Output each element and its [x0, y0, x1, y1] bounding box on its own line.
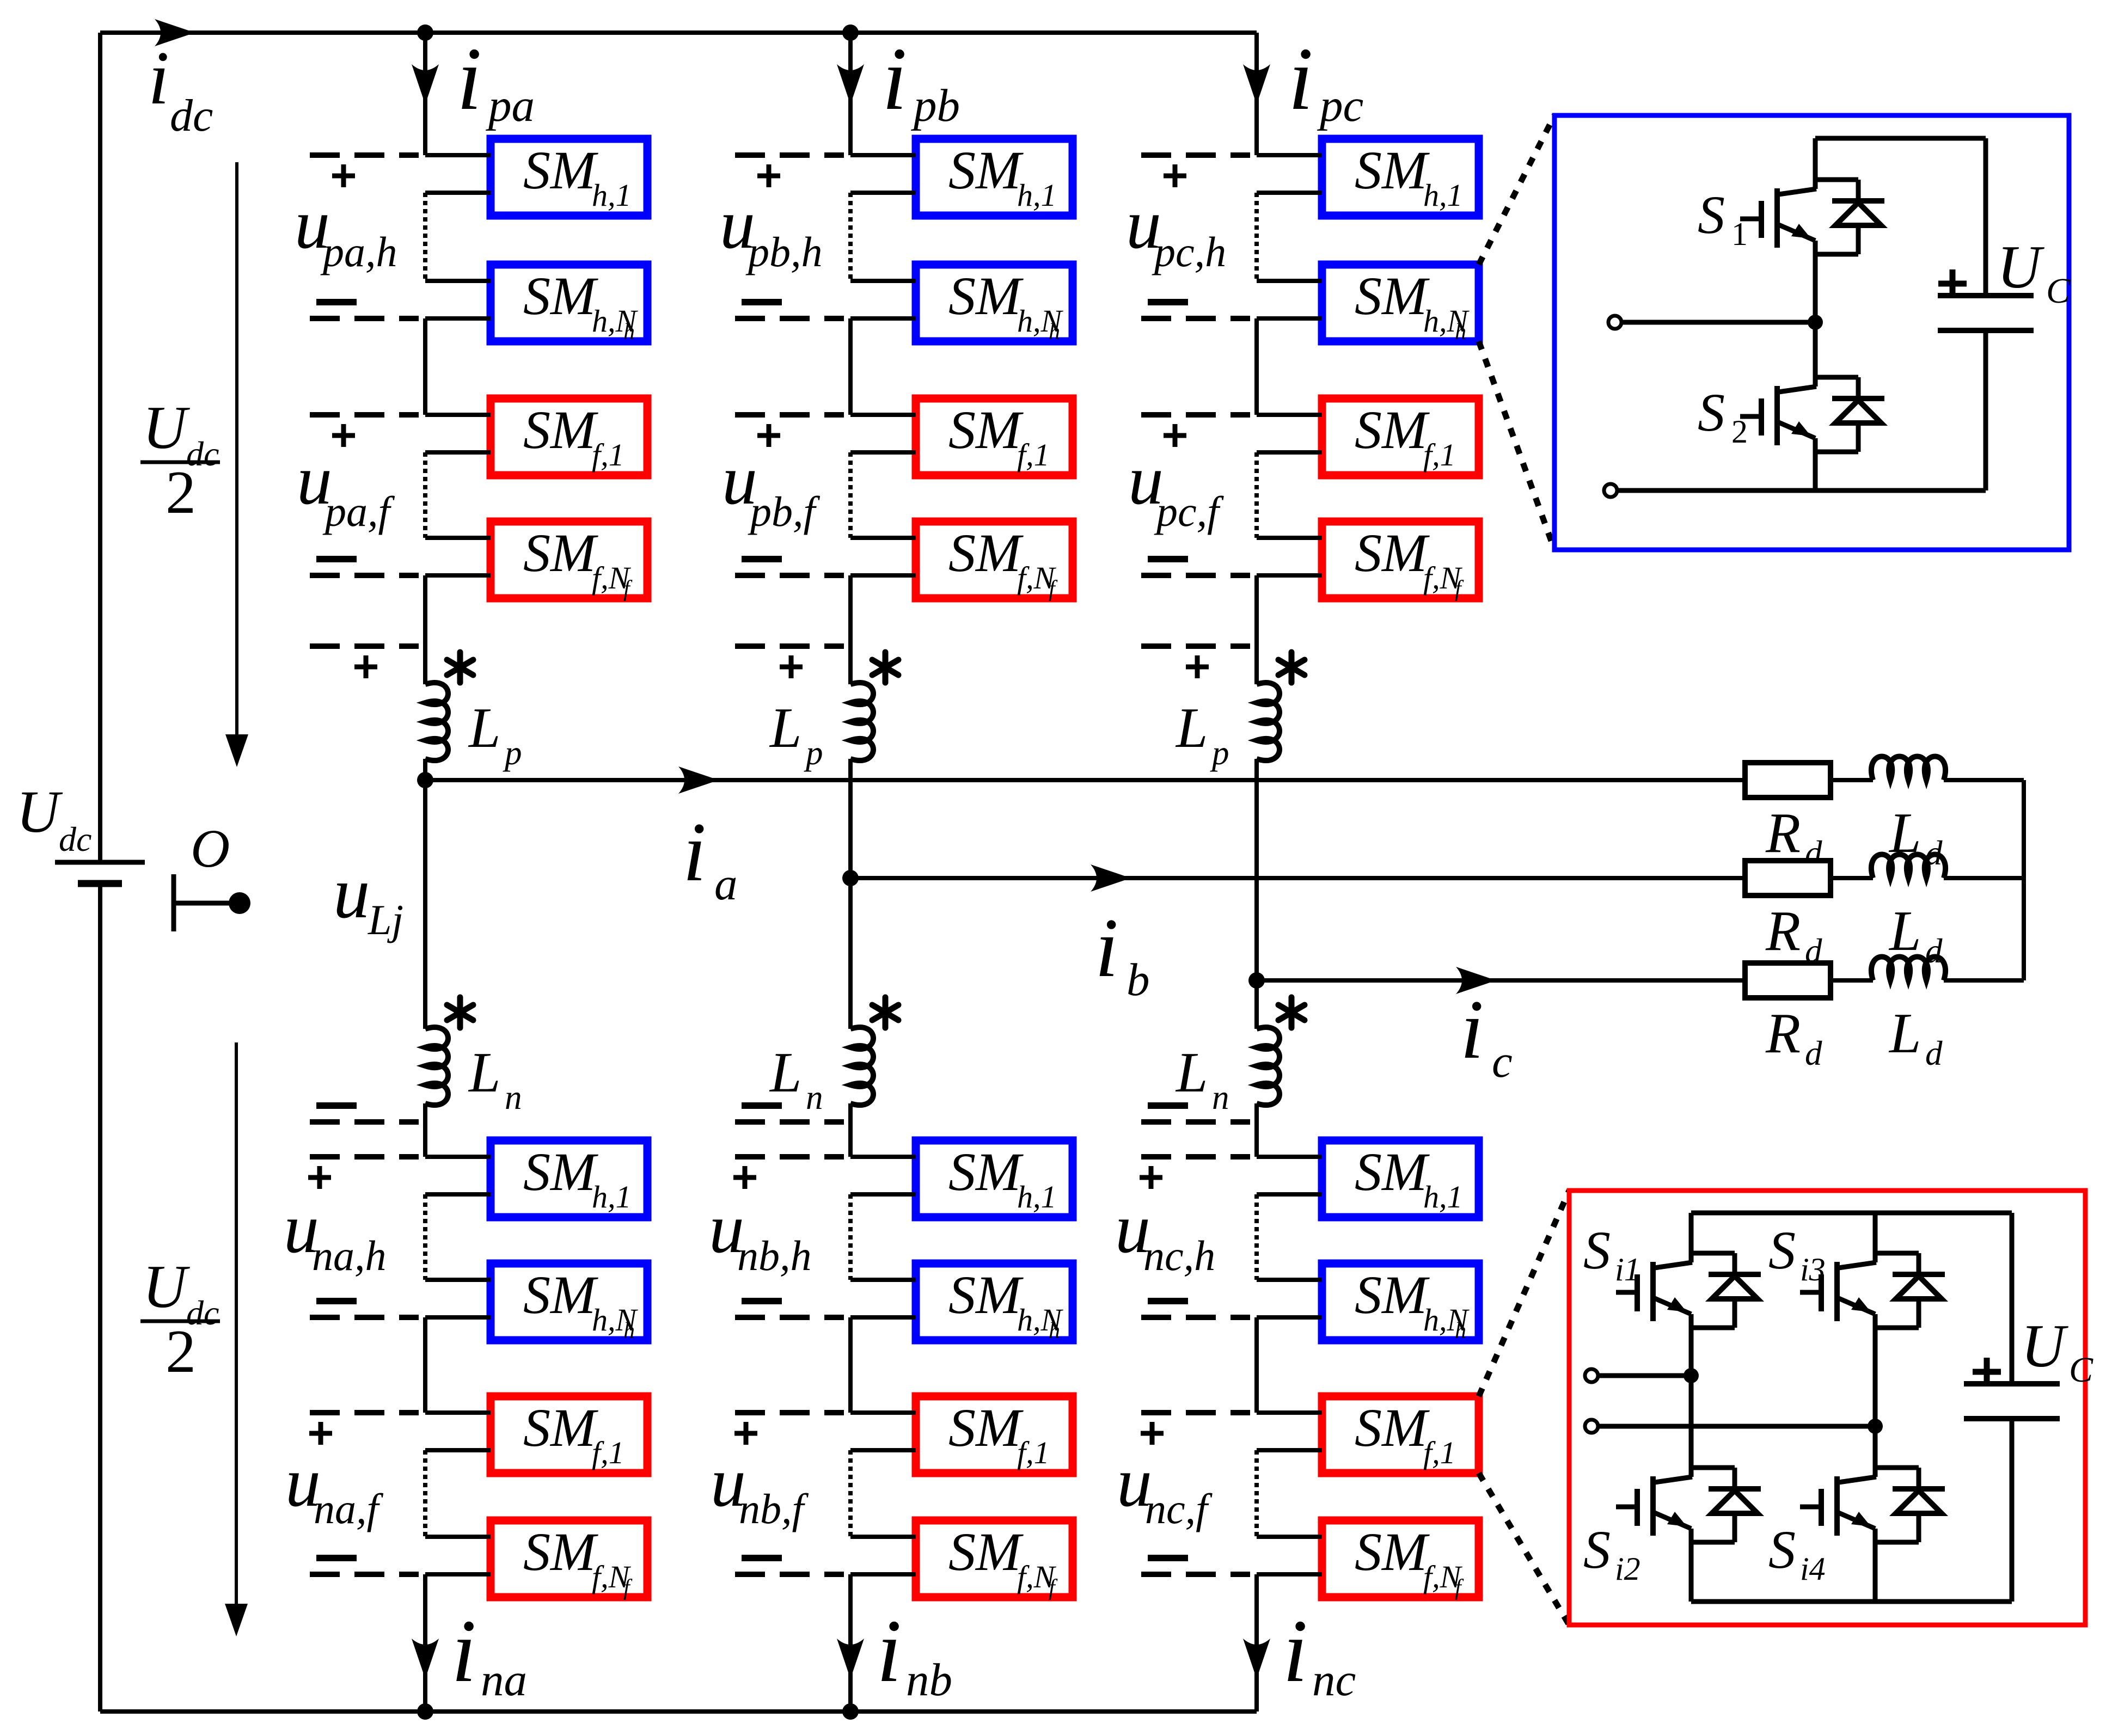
- arrow i_a: [678, 766, 719, 794]
- submodule SM box (top arm b row 2): [916, 265, 1073, 341]
- inductor L_n phase c: [1257, 1027, 1280, 1105]
- submodule SM box (bottom arm a row 1): [491, 1140, 647, 1217]
- submodule SM box (top arm c row 4): [1322, 522, 1479, 598]
- node top bus / phase a: [417, 24, 433, 41]
- svg-text:f,1: f,1: [592, 1435, 625, 1470]
- svg-text:u: u: [333, 852, 370, 934]
- wire pins row 2: [1257, 279, 1322, 283]
- wire chain dotted 3: [848, 1194, 853, 1280]
- svg-text:dc: dc: [170, 90, 213, 141]
- diode D_i2: [1691, 1465, 1735, 1470]
- source U_dc battery: [55, 860, 145, 865]
- svg-text:S: S: [1768, 1519, 1796, 1580]
- wire midpoint to lower inductor: [1254, 980, 1259, 1029]
- wire inductor to midpoint: [1254, 759, 1259, 980]
- wire inductor to lower arm: [848, 1103, 853, 1157]
- svg-text:p: p: [1210, 734, 1229, 772]
- svg-text:L: L: [769, 1040, 801, 1104]
- inductor L_p phase c: [1257, 683, 1280, 760]
- wire R_d to L_d (c): [1831, 978, 1873, 983]
- wire: top feed phase a: [423, 33, 427, 155]
- svg-text:SM: SM: [1355, 400, 1430, 460]
- inductor L_d (b): [1871, 855, 1945, 879]
- wire output line i_a: [425, 778, 1745, 782]
- wire pins bottom row 4: [850, 1535, 916, 1539]
- svg-text:nc,f: nc,f: [1145, 1485, 1213, 1532]
- wire pins bottom row 3: [425, 1410, 491, 1415]
- svg-text:L: L: [1888, 899, 1921, 962]
- svg-text:2: 2: [166, 459, 196, 526]
- wire S_i1 emitter to left midpoint: [1689, 1314, 1694, 1376]
- submodule SM box (top arm b row 1): [916, 139, 1073, 216]
- wire to upper arm inductor: [423, 575, 427, 684]
- leader dotted to full-bridge inset (top): [1479, 1191, 1569, 1396]
- svg-text:SM: SM: [948, 523, 1024, 583]
- wire midpoint to lower inductor: [848, 878, 853, 1029]
- wire collector S_i3: [1873, 1213, 1878, 1262]
- node top bus / phase b: [842, 24, 859, 41]
- svg-text:b: b: [1127, 954, 1150, 1005]
- svg-text:pb: pb: [911, 80, 960, 131]
- svg-text:SM: SM: [1355, 1142, 1430, 1202]
- wire left midpoint to S_i2: [1689, 1376, 1694, 1477]
- plus sign capacitor (half-bridge): [1938, 269, 1967, 298]
- node O midpoint tap: [172, 874, 176, 931]
- wire collector S1: [1813, 138, 1818, 189]
- wire R_d to L_d (b): [1831, 876, 1873, 880]
- svg-text:SM: SM: [948, 266, 1024, 326]
- svg-text:h,1: h,1: [1017, 1179, 1057, 1214]
- svg-text:S: S: [1698, 185, 1725, 245]
- wire collector S_i1: [1689, 1213, 1694, 1262]
- svg-text:SM: SM: [523, 523, 598, 583]
- svg-text:h: h: [1049, 320, 1060, 345]
- svg-text:h,1: h,1: [1423, 177, 1463, 213]
- svg-text:nb: nb: [906, 1654, 952, 1706]
- submodule SM box (bottom arm a row 2): [491, 1263, 647, 1340]
- resistor R_d (a): [1745, 763, 1831, 798]
- svg-text:i3: i3: [1800, 1252, 1826, 1287]
- wire pins bottom row 1: [425, 1155, 491, 1159]
- wire lower arm to bottom bus: [1254, 1574, 1259, 1712]
- svg-text:f,1: f,1: [1423, 1435, 1456, 1470]
- svg-text:i1: i1: [1615, 1252, 1640, 1287]
- wire right midpoint to S_i4: [1873, 1426, 1878, 1477]
- wire left vertical (dc link): [98, 33, 102, 862]
- wire inductor to midpoint: [423, 759, 427, 780]
- svg-text:SM: SM: [523, 1397, 598, 1458]
- svg-text:n: n: [1212, 1078, 1229, 1117]
- wire chain dotted 1: [1254, 193, 1259, 281]
- node left midpoint (full-bridge): [1684, 1368, 1699, 1383]
- wire L_d to star point (a): [1944, 778, 2024, 782]
- svg-text:d: d: [1925, 1034, 1943, 1072]
- inductor L_n phase a: [425, 1027, 448, 1105]
- arrow i_pc: [1243, 64, 1270, 105]
- svg-text:O: O: [191, 818, 230, 879]
- submodule SM box (bottom arm b row 4): [916, 1520, 1073, 1597]
- svg-text:h: h: [623, 1318, 635, 1344]
- main DC bus top: [100, 30, 1257, 35]
- submodule SM box (bottom arm c row 2): [1322, 1263, 1479, 1340]
- svg-text:pa: pa: [486, 80, 535, 131]
- arrow i_na: [412, 1639, 439, 1679]
- wire top rail (half-bridge): [1815, 136, 1986, 141]
- svg-text:pb,h: pb,h: [745, 228, 823, 275]
- wire inductor to lower arm: [1254, 1103, 1259, 1157]
- submodule SM box (top arm c row 3): [1322, 398, 1479, 475]
- svg-text:na: na: [481, 1654, 527, 1706]
- submodule SM box (top arm c row 1): [1322, 139, 1479, 216]
- svg-text:i: i: [1095, 901, 1118, 995]
- svg-text:R: R: [1765, 801, 1801, 864]
- diode D_i1: [1691, 1251, 1735, 1256]
- wire to upper arm inductor: [1254, 575, 1259, 684]
- transistor S_i3: [1834, 1262, 1840, 1321]
- wire top rail (full-bridge): [1691, 1211, 2012, 1216]
- transistor S_i2: [1650, 1476, 1656, 1536]
- wire chain solid 2: [848, 1317, 853, 1413]
- node bottom bus / phase a: [417, 1703, 433, 1720]
- wire bottom rail (full-bridge): [1691, 1599, 2012, 1604]
- resistor R_d (c): [1745, 963, 1831, 998]
- wire inductor to lower arm: [423, 1103, 427, 1157]
- wire: top feed phase c: [1254, 33, 1259, 155]
- submodule SM box (bottom arm c row 3): [1322, 1396, 1479, 1473]
- svg-text:SM: SM: [1355, 1397, 1430, 1458]
- measurement markers phase a: [310, 152, 419, 158]
- svg-text:f,1: f,1: [1423, 437, 1456, 473]
- half-bridge submodule inset box (blue): [1554, 115, 2069, 550]
- measurement markers phase c: [1141, 152, 1250, 158]
- submodule SM box (bottom arm c row 1): [1322, 1140, 1479, 1217]
- svg-text:i: i: [451, 1601, 476, 1701]
- inductor L_d (a): [1871, 757, 1945, 781]
- plus sign capacitor (full-bridge): [1973, 1358, 2001, 1386]
- wire chain dotted 4: [848, 1450, 853, 1537]
- svg-text:R: R: [1765, 899, 1801, 962]
- wire S_i2 emitter to bottom rail (full-bridge): [1689, 1529, 1694, 1602]
- svg-text:L: L: [468, 1040, 500, 1104]
- svg-text:f,1: f,1: [592, 437, 625, 473]
- wire output line i_b: [850, 876, 1745, 880]
- svg-text:h,1: h,1: [1017, 177, 1057, 213]
- submodule SM box (bottom arm c row 4): [1322, 1520, 1479, 1597]
- submodule SM box (bottom arm a row 4): [491, 1520, 647, 1597]
- wire chain dotted 3: [1254, 1194, 1259, 1280]
- svg-text:L: L: [1175, 1040, 1208, 1104]
- node bottom bus / phase b: [842, 1703, 859, 1720]
- svg-text:nc: nc: [1312, 1654, 1356, 1706]
- inductor L_d (c): [1871, 957, 1945, 981]
- svg-text:2: 2: [1731, 414, 1748, 450]
- svg-text:i: i: [1460, 983, 1484, 1076]
- svg-text:i: i: [457, 29, 482, 128]
- inductor L_n phase b: [850, 1027, 873, 1105]
- arrow i_pb: [837, 64, 864, 105]
- svg-text:nb,f: nb,f: [739, 1485, 809, 1532]
- svg-text:h: h: [1455, 320, 1466, 345]
- svg-text:L: L: [1175, 696, 1208, 759]
- svg-text:U: U: [143, 394, 190, 462]
- inductor L_p phase b: [850, 683, 873, 760]
- svg-text:i: i: [148, 36, 169, 120]
- wire output line i_c: [1257, 978, 1745, 983]
- svg-text:na,h: na,h: [312, 1232, 387, 1279]
- svg-text:L: L: [1888, 1001, 1921, 1065]
- svg-text:SM: SM: [1355, 140, 1430, 200]
- submodule SM box (top arm a row 4): [491, 522, 647, 598]
- submodule SM box (top arm b row 4): [916, 522, 1073, 598]
- arrow U_dc/2 lower: [235, 1042, 238, 1607]
- diode D_i4: [1875, 1465, 1919, 1470]
- svg-text:S: S: [1768, 1220, 1796, 1280]
- wire lower arm to bottom bus: [848, 1574, 853, 1712]
- svg-text:SM: SM: [523, 266, 598, 326]
- wire pins bottom row 2: [425, 1278, 491, 1282]
- svg-text:i: i: [1288, 29, 1313, 128]
- svg-text:2: 2: [166, 1318, 196, 1385]
- svg-text:SM: SM: [1355, 266, 1430, 326]
- svg-text:h,1: h,1: [592, 1179, 632, 1214]
- svg-text:f,1: f,1: [1017, 1435, 1050, 1470]
- arrow i_dc: [155, 19, 195, 46]
- wire lower arm to bottom bus: [423, 1574, 427, 1712]
- svg-text:a: a: [714, 858, 738, 910]
- svg-text:nb,h: nb,h: [737, 1232, 812, 1279]
- arrow U_dc/2 upper: [235, 162, 238, 738]
- wire chain solid: [423, 318, 427, 415]
- svg-text:SM: SM: [948, 140, 1024, 200]
- transistor S1: [1774, 188, 1780, 248]
- svg-text:SM: SM: [1355, 1265, 1430, 1325]
- svg-text:i: i: [877, 1601, 902, 1701]
- wire chain solid 2: [423, 1317, 427, 1413]
- svg-text:p: p: [503, 734, 522, 772]
- wire to upper arm inductor: [848, 575, 853, 684]
- svg-text:SM: SM: [1355, 523, 1430, 583]
- diode D_i3: [1875, 1251, 1919, 1256]
- submodule SM box (bottom arm a row 3): [491, 1396, 647, 1473]
- svg-text:S: S: [1583, 1519, 1611, 1580]
- wire chain dotted 1: [848, 193, 853, 281]
- wire pins row 4: [850, 536, 916, 540]
- wire chain dotted 1: [423, 193, 427, 281]
- wire chain solid: [848, 318, 853, 415]
- svg-text:U: U: [143, 1253, 190, 1321]
- wire chain dotted 2: [848, 452, 853, 538]
- svg-text:S: S: [1583, 1220, 1611, 1280]
- wire pins bottom row 1: [850, 1155, 916, 1159]
- wire pins row 1: [425, 153, 491, 157]
- svg-text:h: h: [1455, 1318, 1466, 1344]
- svg-text:SM: SM: [948, 1265, 1024, 1325]
- svg-text:Lj: Lj: [368, 896, 403, 943]
- svg-text:dc: dc: [59, 820, 91, 858]
- arrow i_pa: [412, 64, 439, 105]
- svg-text:SM: SM: [1355, 1522, 1430, 1582]
- wire chain solid: [1254, 318, 1259, 415]
- wire chain dotted 3: [423, 1194, 427, 1280]
- svg-text:pa,f: pa,f: [322, 488, 395, 535]
- submodule SM box (top arm a row 3): [491, 398, 647, 475]
- svg-text:nc,h: nc,h: [1143, 1232, 1215, 1279]
- svg-text:S: S: [1698, 382, 1725, 443]
- wire S_i3 emitter to right midpoint: [1873, 1314, 1878, 1426]
- svg-text:n: n: [505, 1078, 522, 1117]
- svg-text:pc,h: pc,h: [1152, 228, 1226, 275]
- arrow i_nb: [837, 1639, 864, 1679]
- wire L_d to star point (c): [1944, 978, 2024, 983]
- svg-text:pa,h: pa,h: [320, 228, 397, 275]
- wire pins bottom row 2: [850, 1278, 916, 1282]
- wire pins row 4: [425, 536, 491, 540]
- svg-text:h,1: h,1: [1423, 1179, 1463, 1214]
- wire L_d to star point (b): [1944, 876, 2024, 880]
- terminal input 1 (half-bridge): [1608, 316, 1621, 329]
- svg-text:SM: SM: [523, 140, 598, 200]
- full-bridge submodule inset box (red): [1569, 1191, 2085, 1625]
- wire pins bottom row 1: [1257, 1155, 1322, 1159]
- diode D2: [1815, 375, 1858, 380]
- svg-text:h: h: [623, 320, 635, 345]
- submodule SM box (top arm a row 2): [491, 265, 647, 341]
- svg-text:SM: SM: [523, 400, 598, 460]
- wire input 1 (half-bridge): [1621, 320, 1815, 325]
- leader dotted to half-bridge inset (bottom): [1479, 341, 1554, 550]
- transistor S_i1: [1650, 1262, 1656, 1321]
- svg-text:SM: SM: [948, 1142, 1024, 1202]
- submodule SM box (bottom arm b row 3): [916, 1396, 1073, 1473]
- svg-text:h: h: [1049, 1318, 1060, 1344]
- resistor R_d (b): [1745, 861, 1831, 895]
- measurement markers phase b: [735, 152, 844, 158]
- wire chain dotted 4: [423, 1450, 427, 1537]
- svg-text:1: 1: [1731, 216, 1748, 252]
- wire pins bottom row 2: [1257, 1278, 1322, 1282]
- wire pins bottom row 4: [425, 1535, 491, 1539]
- submodule SM box (bottom arm b row 2): [916, 1263, 1073, 1340]
- wire midpoint to lower inductor: [423, 780, 427, 1029]
- wire chain dotted 4: [1254, 1450, 1259, 1537]
- node right midpoint (full-bridge): [1868, 1419, 1883, 1434]
- submodule SM box (bottom arm b row 1): [916, 1140, 1073, 1217]
- svg-text:p: p: [804, 734, 823, 772]
- svg-text:SM: SM: [523, 1142, 598, 1202]
- wire pins row 1: [1257, 153, 1322, 157]
- leader dotted to full-bridge inset (bottom): [1479, 1473, 1569, 1625]
- svg-text:U: U: [1997, 234, 2044, 301]
- diode D1: [1815, 177, 1858, 182]
- wire chain dotted 2: [423, 452, 427, 538]
- svg-text:SM: SM: [523, 1265, 598, 1325]
- svg-text:pc,f: pc,f: [1154, 488, 1224, 535]
- transistor S_i4: [1834, 1476, 1840, 1536]
- svg-text:h,1: h,1: [592, 177, 632, 213]
- arrow i_c: [1456, 967, 1496, 994]
- svg-text:i: i: [882, 29, 907, 128]
- transistor S2: [1774, 386, 1780, 445]
- svg-text:na,f: na,f: [314, 1485, 384, 1532]
- svg-text:SM: SM: [523, 1522, 598, 1582]
- svg-text:i4: i4: [1800, 1551, 1826, 1587]
- wire pins row 1: [850, 153, 916, 157]
- capacitor C (half-bridge): [1984, 138, 1988, 296]
- wire input 1 (full-bridge): [1598, 1373, 1691, 1378]
- wire pins row 2: [425, 279, 491, 283]
- node midpoint phase b: [842, 870, 859, 886]
- svg-text:SM: SM: [948, 1397, 1024, 1458]
- inductor L_p phase a: [425, 683, 448, 760]
- leader dotted to half-bridge inset (top): [1479, 115, 1554, 265]
- wire: top feed phase b: [848, 33, 853, 155]
- submodule SM box (top arm b row 3): [916, 398, 1073, 475]
- terminal input 1 (full-bridge): [1585, 1369, 1598, 1382]
- svg-text:i: i: [683, 805, 706, 899]
- wire bottom rail (half-bridge): [1617, 488, 1986, 493]
- svg-text:C: C: [2046, 271, 2071, 311]
- arrow i_nc: [1243, 1639, 1270, 1679]
- wire pins row 4: [1257, 536, 1322, 540]
- wire chain dotted 2: [1254, 452, 1259, 538]
- svg-text:SM: SM: [948, 400, 1024, 460]
- wire pins bottom row 3: [850, 1410, 916, 1415]
- submodule SM box (top arm a row 1): [491, 139, 647, 216]
- svg-text:R: R: [1765, 1001, 1801, 1065]
- svg-text:SM: SM: [948, 1522, 1024, 1582]
- wire R_d to L_d (a): [1831, 778, 1873, 782]
- terminal input 2 (full-bridge): [1585, 1420, 1598, 1433]
- wire input 2 (full-bridge): [1598, 1424, 1875, 1429]
- wire star point vertical: [2022, 780, 2026, 980]
- node midpoint (half-bridge): [1808, 315, 1823, 330]
- svg-text:pb,f: pb,f: [748, 488, 821, 535]
- svg-text:U: U: [16, 778, 63, 845]
- main DC bus bottom: [100, 1709, 1257, 1714]
- node midpoint phase c: [1248, 972, 1265, 989]
- wire pins row 3: [1257, 413, 1322, 417]
- wire S2 emitter to bottom rail: [1813, 438, 1818, 490]
- svg-text:pc: pc: [1317, 80, 1363, 131]
- svg-text:n: n: [806, 1078, 823, 1117]
- arrow i_b: [1091, 864, 1131, 892]
- wire pins row 3: [850, 413, 916, 417]
- wire pins bottom row 3: [1257, 1410, 1322, 1415]
- svg-text:i2: i2: [1615, 1551, 1640, 1587]
- wire midpoint to S2 (half-bridge): [1813, 322, 1818, 387]
- wire inductor to midpoint: [848, 759, 853, 878]
- svg-text:C: C: [2069, 1350, 2093, 1390]
- wire pins row 3: [425, 413, 491, 417]
- wire chain solid 2: [1254, 1317, 1259, 1413]
- wire S1 emitter to midpoint: [1813, 241, 1818, 322]
- svg-text:L: L: [769, 696, 801, 759]
- node midpoint phase a: [417, 772, 433, 788]
- wire S_i4 emitter to bottom rail: [1873, 1529, 1878, 1602]
- svg-text:d: d: [1805, 1034, 1822, 1072]
- svg-text:U: U: [2021, 1312, 2068, 1380]
- wire pins bottom row 4: [1257, 1535, 1322, 1539]
- svg-text:L: L: [468, 696, 500, 759]
- terminal input 2 (half-bridge): [1604, 484, 1617, 497]
- svg-text:f,1: f,1: [1017, 437, 1050, 473]
- submodule SM box (top arm c row 2): [1322, 265, 1479, 341]
- wire pins row 2: [850, 279, 916, 283]
- capacitor C (full-bridge): [2010, 1213, 2015, 1384]
- svg-text:c: c: [1492, 1036, 1513, 1087]
- svg-text:i: i: [1283, 1601, 1308, 1701]
